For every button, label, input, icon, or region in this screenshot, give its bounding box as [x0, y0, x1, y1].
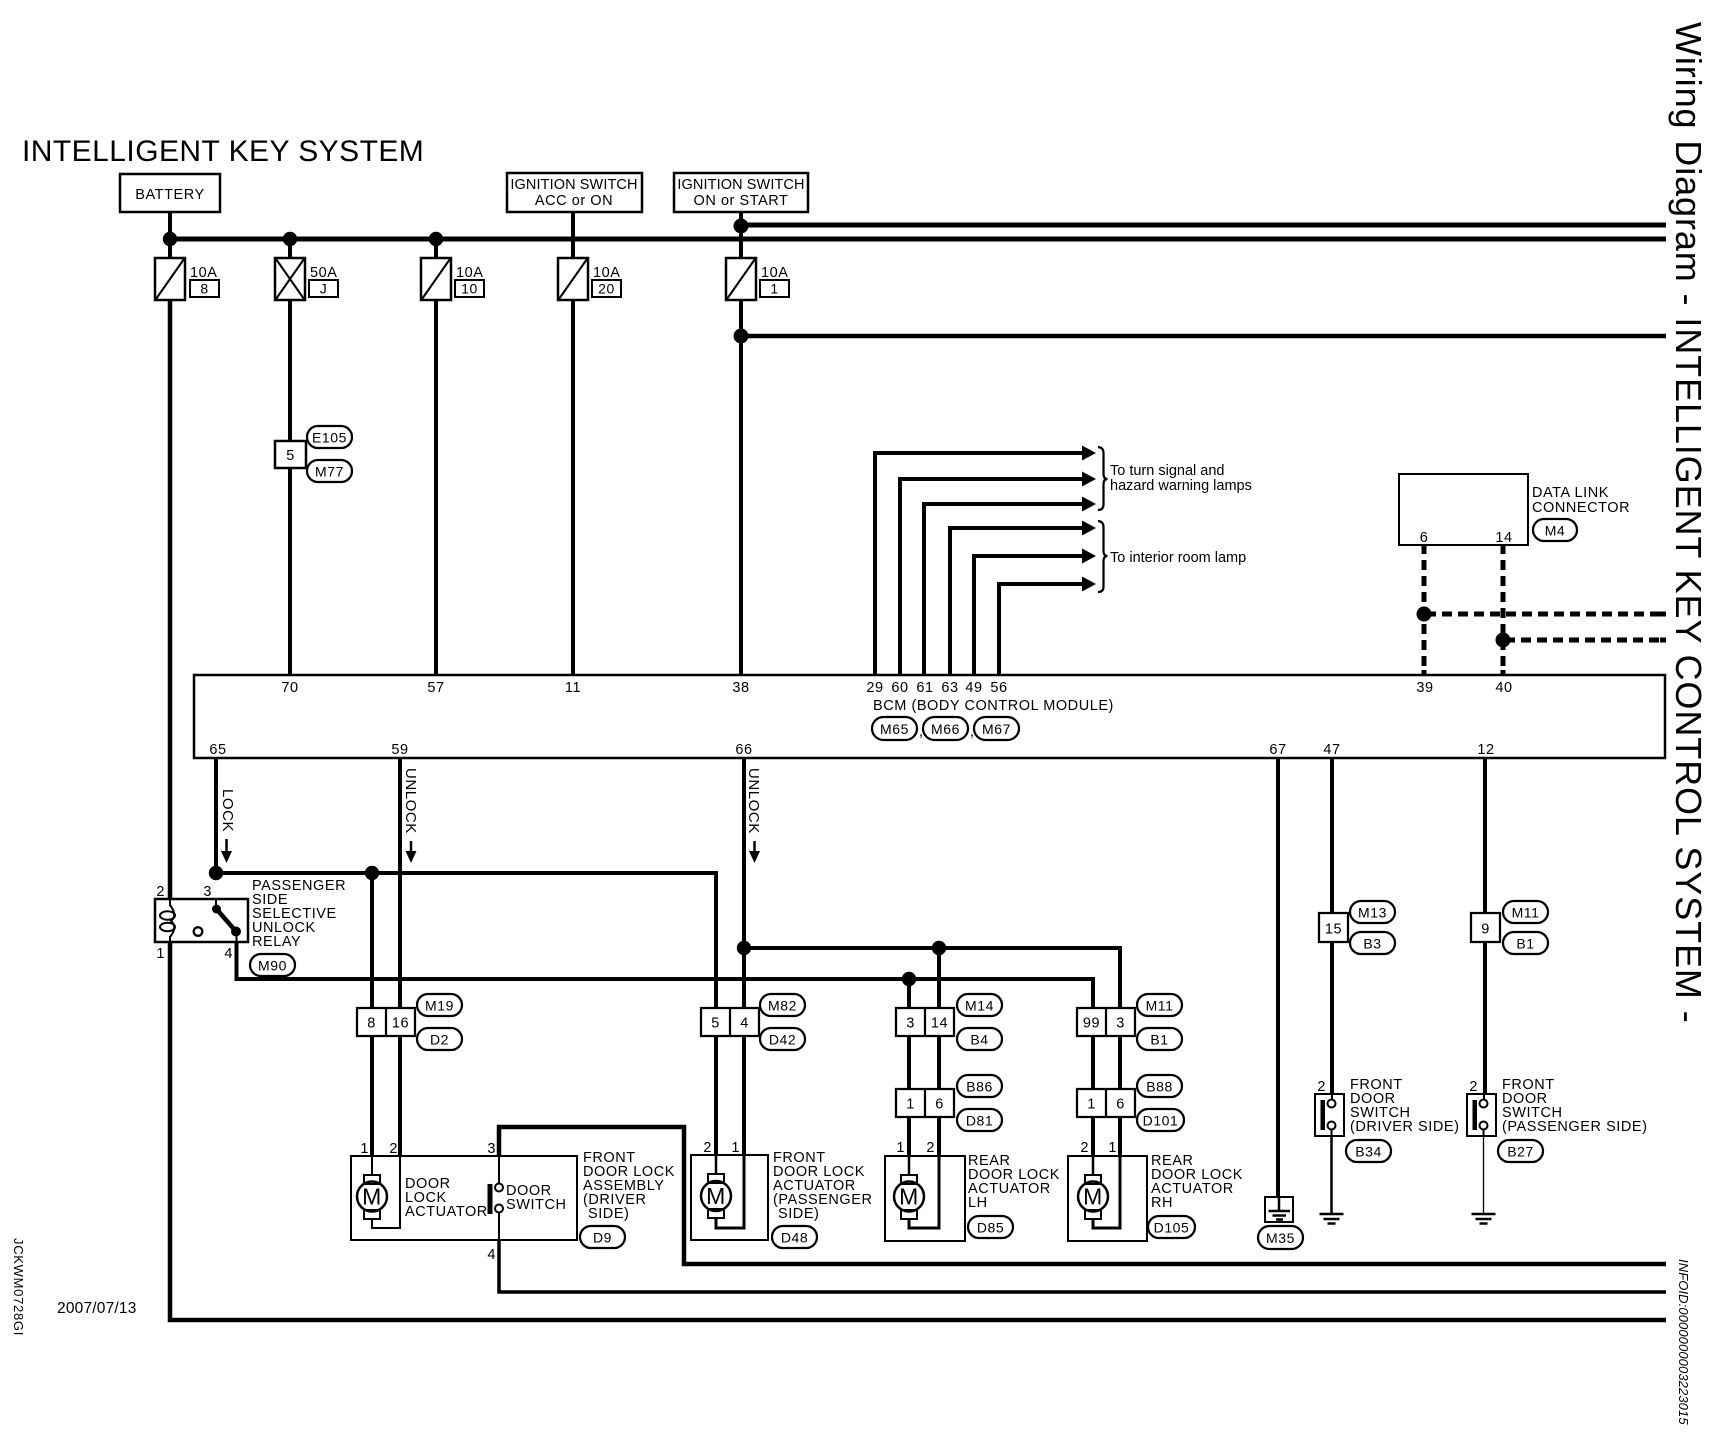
svg-text:M66: M66	[931, 721, 960, 737]
brace interior room lamp group	[1098, 521, 1108, 592]
connector oval D42	[760, 1028, 805, 1050]
svg-text:65: 65	[209, 742, 226, 758]
svg-text:BATTERY: BATTERY	[135, 187, 204, 203]
ground front door switch passenger	[1472, 1214, 1496, 1224]
connector M82 D42 [5 4]	[701, 1008, 759, 1036]
arrow UNLOCK 66 direction	[749, 841, 760, 863]
wire BCM pin 66 UNLOCK to passenger actuator pin 1	[742, 757, 746, 1156]
wire branch at fuse 1 output	[741, 334, 1666, 339]
fuse 10A [20]	[558, 258, 621, 300]
connector 15 [M13 B3]	[1319, 913, 1348, 942]
svg-text:2: 2	[1317, 1079, 1326, 1095]
wire to rear LH actuator pin 1	[907, 979, 911, 1156]
connector M11 B1 [99 3]	[1077, 1008, 1135, 1036]
svg-text:4: 4	[487, 1247, 496, 1263]
svg-text:3: 3	[203, 884, 212, 900]
svg-text:16: 16	[392, 1016, 409, 1032]
svg-text:8: 8	[367, 1016, 376, 1032]
label front door lock assembly driver side	[583, 1150, 675, 1222]
arrow LOCK direction	[221, 839, 232, 863]
junction UNLOCK 66 branch	[737, 941, 751, 955]
label front door switch driver side	[1350, 1077, 1459, 1135]
svg-text:(DRIVER SIDE): (DRIVER SIDE)	[1350, 1119, 1459, 1135]
svg-text:SIDE): SIDE)	[778, 1206, 819, 1222]
svg-text:M: M	[1083, 1184, 1103, 1210]
wire battery through relay coil to bottom rail	[170, 300, 1666, 1320]
brace turn signal group	[1098, 447, 1108, 510]
wire fuse 10 to BCM pin 57	[434, 300, 438, 676]
connector oval M35	[1258, 1226, 1303, 1249]
svg-text:10A: 10A	[456, 265, 483, 281]
wire ON/START drop	[739, 212, 743, 258]
relay M90 passenger side selective unlock relay	[155, 884, 248, 962]
svg-text:2007/07/13: 2007/07/13	[57, 1300, 137, 1317]
svg-text:56: 56	[990, 680, 1007, 696]
wire front door switch passenger to ground	[1483, 1136, 1485, 1214]
connector oval D101	[1137, 1109, 1184, 1131]
svg-text:61: 61	[916, 680, 933, 696]
wire stub to fusible link J	[288, 239, 292, 258]
svg-text:SIDE): SIDE)	[588, 1206, 629, 1222]
junction fuse 10	[429, 232, 443, 246]
connector oval M11	[1503, 901, 1548, 923]
connector oval M66	[923, 717, 975, 740]
svg-text:50A: 50A	[310, 265, 337, 281]
wire door switch pin 3 output	[499, 1127, 1666, 1264]
motor rear door lock actuator RH	[1078, 1156, 1120, 1228]
wire door switch pin 4 output	[499, 1240, 1666, 1292]
svg-text:6: 6	[1420, 530, 1429, 546]
connector oval B86	[957, 1075, 1002, 1097]
label front door switch passenger side	[1502, 1077, 1648, 1135]
svg-text:10A: 10A	[190, 265, 217, 281]
wire BCM pin 29 to turn signal lamps	[875, 446, 1096, 677]
svg-text:2: 2	[1080, 1140, 1089, 1156]
svg-text:57: 57	[427, 680, 444, 696]
svg-text:6: 6	[1116, 1097, 1125, 1113]
fuse 10A [1]	[726, 258, 789, 300]
svg-text:2: 2	[156, 884, 165, 900]
wire BCM pin 56 to interior room lamp	[999, 577, 1096, 677]
connector 9 [M11 B1]	[1471, 913, 1500, 942]
svg-text:M67: M67	[982, 721, 1011, 737]
svg-text:B4: B4	[970, 1032, 988, 1048]
connector oval B88	[1137, 1075, 1182, 1097]
wire BCM pin 63 to interior room lamp	[950, 521, 1096, 677]
svg-text:M35: M35	[1266, 1230, 1295, 1246]
svg-text:M19: M19	[425, 998, 454, 1014]
label rear door lock actuator LH	[968, 1153, 1060, 1211]
svg-text:BCM (BODY CONTROL MODULE): BCM (BODY CONTROL MODULE)	[873, 698, 1114, 714]
connector oval M90	[250, 954, 295, 976]
connector B86 D81 [1 6]	[896, 1089, 954, 1117]
wire bus battery feed	[168, 237, 1666, 242]
wire to rear LH actuator pin 2	[937, 948, 941, 1156]
connector oval B1	[1503, 932, 1548, 954]
rear door lock actuator LH box D85	[885, 1140, 965, 1241]
wire front door switch driver to ground	[1330, 1136, 1333, 1214]
label rear door lock actuator RH	[1151, 1153, 1243, 1211]
wire fuse 1 to BCM pin 38	[739, 300, 743, 676]
wire connector 15 to front door switch driver	[1330, 942, 1334, 1094]
svg-text:6: 6	[935, 1097, 944, 1113]
svg-text:LH: LH	[968, 1195, 988, 1211]
svg-text:M90: M90	[258, 958, 287, 974]
BCM bottom pin labels	[209, 742, 1494, 758]
fuse 10A [10]	[421, 258, 484, 300]
svg-text:B1: B1	[1150, 1032, 1168, 1048]
junction LOCK to driver actuator	[365, 866, 379, 880]
svg-text:5: 5	[286, 448, 295, 464]
label data link connector	[1532, 485, 1630, 516]
junction relay line to rear LH pin 1	[902, 972, 916, 986]
front door lock assembly driver side box D9	[351, 1141, 577, 1263]
svg-text:1: 1	[360, 1141, 369, 1157]
svg-text:D42: D42	[769, 1032, 796, 1048]
svg-text:59: 59	[391, 742, 408, 758]
BCM body control module box	[194, 675, 1665, 758]
svg-text:10A: 10A	[761, 265, 788, 281]
svg-text:47: 47	[1323, 742, 1340, 758]
ground front door switch driver	[1320, 1214, 1344, 1224]
ground M35 boxed	[1265, 1197, 1293, 1222]
wire BCM pin 67 to ground M35	[1276, 757, 1280, 1197]
svg-text:D48: D48	[781, 1230, 808, 1246]
svg-text:2: 2	[926, 1140, 935, 1156]
connector oval E105	[307, 426, 352, 448]
junction CAN lower	[1496, 633, 1511, 648]
svg-text:M65: M65	[880, 721, 909, 737]
svg-text:3: 3	[1116, 1016, 1125, 1032]
svg-text:14: 14	[1495, 530, 1512, 546]
junction fuse 1 output	[734, 329, 749, 344]
label to turn signal and hazard warning lamps	[1110, 463, 1252, 494]
junction battery bus	[163, 232, 177, 246]
arrow UNLOCK 59 direction	[406, 841, 417, 863]
svg-text:1: 1	[731, 1140, 740, 1156]
svg-text:5: 5	[711, 1016, 720, 1032]
svg-text:4: 4	[224, 946, 233, 962]
svg-text:ACC or ON: ACC or ON	[535, 193, 613, 209]
front door switch passenger side B27	[1467, 1079, 1496, 1136]
wire BCM pin 60 to turn signal lamps	[900, 472, 1096, 677]
svg-text:1: 1	[906, 1097, 915, 1113]
svg-text:63: 63	[941, 680, 958, 696]
svg-text:B88: B88	[1146, 1079, 1173, 1095]
svg-text:hazard warning lamps: hazard warning lamps	[1110, 478, 1252, 494]
svg-text:B3: B3	[1363, 936, 1381, 952]
rear door lock actuator RH box D105	[1068, 1140, 1147, 1241]
svg-text:66: 66	[735, 742, 752, 758]
relay coil	[160, 899, 175, 942]
svg-text:67: 67	[1269, 742, 1286, 758]
wire to driver actuator pin 1	[370, 873, 374, 1156]
connector oval B27	[1498, 1140, 1543, 1162]
svg-text:M13: M13	[1358, 905, 1387, 921]
svg-text:3: 3	[487, 1141, 496, 1157]
svg-text:B1: B1	[1516, 936, 1534, 952]
svg-text:INTELLIGENT KEY SYSTEM: INTELLIGENT KEY SYSTEM	[22, 135, 424, 168]
door switch driver assembly	[488, 1156, 504, 1240]
connector M14 B4 [3 14]	[896, 1008, 954, 1036]
connector oval D2	[417, 1028, 462, 1050]
svg-text:49: 49	[965, 680, 982, 696]
svg-text:B34: B34	[1355, 1144, 1382, 1160]
battery box	[120, 174, 220, 212]
wire fuse 20 to BCM pin 11	[571, 300, 575, 676]
svg-text:1: 1	[896, 1140, 905, 1156]
label door switch	[506, 1183, 567, 1213]
wire BCM pin 12 to connector 9	[1483, 757, 1487, 913]
wire BCM pin 49 to interior room lamp	[974, 549, 1096, 677]
svg-text:UNLOCK: UNLOCK	[745, 768, 762, 834]
svg-text:Wiring Diagram - INTELLIGENT K: Wiring Diagram - INTELLIGENT KEY CONTROL…	[1668, 22, 1709, 1024]
svg-text:40: 40	[1495, 680, 1512, 696]
svg-text:2: 2	[1469, 1079, 1478, 1095]
connector B88 D101 [1 6]	[1077, 1089, 1135, 1117]
junction UNLOCK to rear LH pin 2	[932, 941, 946, 955]
svg-text:INFOID:0000000003223015: INFOID:0000000003223015	[1676, 1259, 1691, 1425]
wire bus ignition ON/START feed	[739, 223, 1666, 228]
svg-text:D101: D101	[1143, 1113, 1179, 1129]
ignition switch ACC or ON box	[507, 173, 642, 212]
svg-text:RELAY: RELAY	[252, 934, 301, 950]
svg-text:M: M	[362, 1184, 382, 1210]
svg-text:D9: D9	[593, 1230, 612, 1246]
svg-text:15: 15	[1325, 922, 1342, 938]
connector oval B1 rear	[1137, 1028, 1182, 1050]
svg-text:2: 2	[703, 1140, 712, 1156]
fuse 10A [8]	[155, 258, 219, 300]
svg-text:29: 29	[866, 680, 883, 696]
svg-text:10: 10	[461, 281, 478, 297]
junction LOCK at relay pin 3	[209, 866, 223, 880]
svg-text:1: 1	[1087, 1097, 1096, 1113]
svg-text:B86: B86	[966, 1079, 993, 1095]
connector M19 D2 [8 16]	[357, 1008, 415, 1036]
shielded CAN wire upper	[1424, 612, 1666, 617]
relay contact fixed	[194, 927, 203, 936]
svg-text:10A: 10A	[593, 265, 620, 281]
fusible link 50A [J]	[275, 258, 338, 300]
ignition switch ON or START box	[674, 173, 808, 212]
wire BCM pin 65 LOCK line	[214, 757, 218, 873]
wire LOCK branch to actuators	[216, 873, 716, 1156]
wire stub to fuse 10	[434, 239, 438, 258]
junction fusible link J	[283, 232, 297, 246]
svg-text:M11: M11	[1146, 998, 1174, 1014]
svg-text:To turn signal and: To turn signal and	[1110, 463, 1224, 479]
front door switch driver side B34	[1315, 1079, 1344, 1136]
connector oval D85	[968, 1216, 1013, 1238]
wire UNLOCK branch to rear actuators	[744, 948, 1120, 1156]
svg-text:70: 70	[281, 680, 298, 696]
svg-text:SWITCH: SWITCH	[506, 1197, 567, 1213]
wire ACC drop	[571, 212, 575, 258]
svg-text:M: M	[899, 1184, 919, 1210]
svg-text:D85: D85	[977, 1220, 1004, 1236]
svg-text:1: 1	[770, 281, 778, 297]
svg-text:12: 12	[1477, 742, 1494, 758]
svg-text:D2: D2	[430, 1032, 449, 1048]
wire relay pin 4 to rear actuators	[237, 942, 1094, 1156]
svg-text:9: 9	[1481, 922, 1490, 938]
svg-text:UNLOCK: UNLOCK	[402, 768, 419, 834]
svg-text:B27: B27	[1507, 1144, 1534, 1160]
connector oval B3	[1350, 932, 1395, 954]
svg-text:M14: M14	[965, 998, 994, 1014]
connector 5 [E105 M77]	[275, 441, 306, 468]
BCM top pin labels	[281, 680, 1512, 696]
svg-text:(PASSENGER SIDE): (PASSENGER SIDE)	[1502, 1119, 1648, 1135]
wire BCM pin 59 UNLOCK to driver actuator pin 2	[398, 757, 402, 1156]
svg-text:M82: M82	[768, 998, 797, 1014]
svg-text:To interior room lamp: To interior room lamp	[1110, 550, 1246, 566]
svg-text:4: 4	[740, 1016, 749, 1032]
shielded CAN wire lower	[1503, 638, 1666, 643]
connector oval M13	[1350, 901, 1395, 923]
connector oval M4	[1533, 519, 1577, 541]
motor door lock actuator driver	[357, 1156, 400, 1228]
svg-text:IGNITION SWITCH: IGNITION SWITCH	[510, 177, 637, 193]
svg-text:LOCK: LOCK	[219, 789, 236, 832]
svg-text:60: 60	[891, 680, 908, 696]
wire fusible link J to connector 5	[288, 300, 292, 441]
junction ON/START bus	[734, 219, 749, 234]
svg-text:E105: E105	[312, 430, 347, 446]
relay switch arm pin 3 to pin 4	[212, 899, 241, 942]
shielded wire DLC pin 14 to BCM pin 40	[1501, 545, 1506, 676]
connector oval D81	[957, 1109, 1002, 1131]
connector oval D105	[1148, 1216, 1195, 1238]
label door lock actuator driver	[405, 1176, 488, 1220]
svg-text:1: 1	[156, 946, 165, 962]
connector oval D9	[580, 1226, 625, 1248]
label passenger side selective unlock relay	[252, 878, 346, 950]
svg-text:D81: D81	[966, 1113, 993, 1129]
wire BCM pin 61 to turn signal lamps	[924, 497, 1096, 677]
svg-text:J: J	[320, 281, 328, 297]
svg-text:M: M	[706, 1183, 726, 1209]
wire connector 9 to front door switch passenger	[1483, 942, 1487, 1094]
connector oval M11 rear	[1137, 994, 1182, 1016]
connector oval B4	[957, 1028, 1002, 1050]
svg-text:M4: M4	[1545, 523, 1566, 539]
svg-text:39: 39	[1416, 680, 1433, 696]
shielded wire DLC pin 6 to BCM pin 39	[1422, 545, 1427, 676]
svg-text:11: 11	[565, 680, 581, 696]
connector oval M19	[417, 994, 462, 1016]
svg-text:JCKWM0728GI: JCKWM0728GI	[11, 1238, 26, 1336]
svg-text:ACTUATOR: ACTUATOR	[405, 1204, 488, 1220]
junction CAN upper	[1417, 607, 1432, 622]
svg-text:RH: RH	[1151, 1195, 1173, 1211]
svg-text:M77: M77	[315, 464, 344, 480]
wire connector 5 to BCM pin 70	[288, 467, 292, 676]
wire BCM pin 47 to connector 15	[1330, 757, 1334, 913]
connector oval M77	[307, 460, 352, 482]
motor door lock actuator passenger	[701, 1155, 744, 1228]
svg-text:M11: M11	[1512, 905, 1540, 921]
svg-text:8: 8	[200, 281, 208, 297]
svg-text:20: 20	[598, 281, 615, 297]
svg-text:38: 38	[732, 680, 749, 696]
label front door lock actuator passenger side	[773, 1150, 873, 1222]
svg-text:1: 1	[1108, 1140, 1117, 1156]
svg-text:IGNITION SWITCH: IGNITION SWITCH	[677, 177, 804, 193]
connector oval B34	[1346, 1140, 1391, 1162]
svg-text:ON or START: ON or START	[694, 193, 789, 209]
svg-text:CONNECTOR: CONNECTOR	[1532, 500, 1630, 516]
svg-text:2: 2	[389, 1141, 398, 1157]
svg-text:DATA LINK: DATA LINK	[1532, 485, 1609, 501]
svg-text:99: 99	[1083, 1016, 1100, 1032]
connector oval M67	[974, 717, 1019, 740]
svg-text:D105: D105	[1154, 1220, 1190, 1236]
wire battery drop to fuse 8	[168, 212, 172, 258]
connector oval M82	[760, 994, 805, 1016]
motor rear door lock actuator LH	[894, 1156, 939, 1228]
data link connector box M4	[1399, 474, 1528, 546]
connector oval D48	[772, 1226, 817, 1248]
connector oval M14	[957, 994, 1002, 1016]
connector oval M65	[872, 717, 924, 740]
svg-text:14: 14	[931, 1016, 948, 1032]
front door lock actuator passenger side box D48	[691, 1140, 768, 1240]
svg-text:3: 3	[906, 1016, 915, 1032]
